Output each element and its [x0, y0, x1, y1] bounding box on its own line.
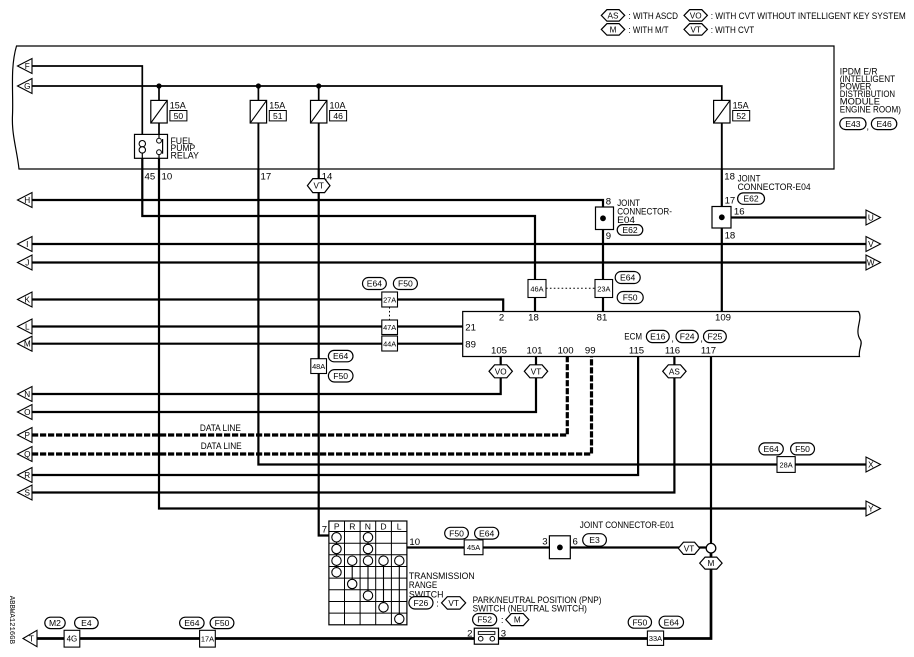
svg-text:E64: E64	[620, 273, 636, 283]
svg-text:S: S	[25, 489, 31, 498]
svg-text:ABBWA1216GB: ABBWA1216GB	[7, 596, 15, 645]
svg-text:V: V	[868, 240, 874, 249]
svg-text:E62: E62	[743, 194, 759, 204]
svg-text:E64: E64	[763, 444, 779, 454]
svg-text:6: 6	[573, 537, 578, 548]
svg-text:F50: F50	[795, 444, 810, 454]
svg-text:52: 52	[736, 111, 746, 121]
svg-text:9: 9	[606, 231, 611, 242]
svg-text:F26: F26	[414, 598, 429, 608]
svg-text:89: 89	[465, 340, 476, 351]
svg-text:E3: E3	[589, 535, 600, 545]
svg-text:3: 3	[542, 537, 547, 548]
svg-text:R: R	[349, 521, 355, 531]
svg-text:10A: 10A	[330, 101, 346, 111]
svg-text:8: 8	[606, 197, 611, 208]
svg-text:N: N	[365, 521, 371, 531]
svg-text:M2: M2	[49, 618, 61, 628]
svg-text:RELAY: RELAY	[171, 151, 200, 161]
svg-text:33A: 33A	[649, 634, 662, 643]
svg-text:15A: 15A	[170, 101, 186, 111]
svg-text:7: 7	[322, 524, 327, 535]
svg-text:116: 116	[665, 346, 680, 357]
svg-text:: WITH CVT WITHOUT INTELLIGENT: : WITH CVT WITHOUT INTELLIGENT KEY SYSTE…	[711, 11, 906, 21]
svg-text:P: P	[334, 521, 340, 531]
svg-text:D: D	[380, 521, 386, 531]
svg-text:117: 117	[701, 346, 716, 357]
svg-text:VO: VO	[690, 11, 702, 20]
svg-text:E64: E64	[479, 528, 495, 538]
svg-text:P: P	[25, 431, 31, 440]
svg-text:115: 115	[629, 346, 644, 357]
svg-text:51: 51	[273, 111, 283, 121]
svg-text:46: 46	[333, 111, 343, 121]
svg-text:17A: 17A	[201, 635, 214, 644]
svg-text:J: J	[25, 259, 29, 268]
svg-text:E64: E64	[184, 618, 200, 628]
svg-text:27A: 27A	[383, 295, 396, 304]
svg-text:E64: E64	[367, 279, 383, 289]
svg-text:VT: VT	[448, 599, 458, 608]
svg-text:50: 50	[174, 111, 184, 121]
svg-text:F24: F24	[680, 332, 695, 342]
svg-text:M: M	[707, 559, 714, 568]
svg-text:4G: 4G	[67, 635, 78, 644]
svg-text:E46: E46	[876, 119, 892, 129]
svg-text:47A: 47A	[383, 323, 396, 332]
svg-text:E16: E16	[650, 332, 666, 342]
svg-text:JOINT CONNECTOR-E01: JOINT CONNECTOR-E01	[580, 520, 674, 530]
svg-text:O: O	[24, 408, 30, 417]
svg-text:I: I	[26, 240, 28, 249]
svg-text:23A: 23A	[597, 284, 610, 293]
svg-text:101: 101	[526, 346, 542, 357]
svg-text:21: 21	[465, 322, 476, 333]
svg-text:VT: VT	[684, 544, 694, 553]
svg-text:H: H	[24, 196, 30, 205]
svg-text:F25: F25	[707, 332, 722, 342]
svg-text:VO: VO	[495, 367, 507, 376]
svg-text:105: 105	[491, 346, 507, 357]
svg-text:VT: VT	[313, 182, 323, 191]
svg-text:,: ,	[671, 334, 674, 344]
svg-text:E64: E64	[333, 351, 349, 361]
svg-text::: :	[501, 615, 504, 626]
svg-text:F50: F50	[333, 371, 348, 381]
svg-text:10: 10	[162, 171, 173, 182]
svg-text:: WITH M/T: : WITH M/T	[629, 25, 669, 35]
svg-text:15A: 15A	[269, 101, 285, 111]
svg-text:99: 99	[585, 346, 596, 357]
svg-text:T: T	[29, 635, 34, 644]
svg-text:SWITCH (NEUTRAL SWITCH): SWITCH (NEUTRAL SWITCH)	[473, 604, 587, 614]
svg-text:Q: Q	[24, 450, 30, 459]
svg-text:2: 2	[467, 628, 472, 639]
svg-text:100: 100	[558, 346, 574, 357]
svg-text:AS: AS	[608, 11, 619, 20]
svg-text:U: U	[868, 214, 874, 223]
svg-text:17: 17	[261, 171, 272, 182]
svg-text:28A: 28A	[780, 460, 793, 469]
svg-text:AS: AS	[669, 367, 680, 376]
svg-text:F: F	[25, 62, 30, 71]
svg-text:W: W	[867, 259, 875, 268]
svg-text:ENGINE ROOM): ENGINE ROOM)	[840, 104, 901, 114]
svg-text:18: 18	[724, 171, 735, 182]
svg-text:F50: F50	[398, 279, 413, 289]
svg-text:16: 16	[734, 207, 745, 218]
svg-text:VT: VT	[690, 25, 700, 34]
svg-text:,: ,	[867, 122, 870, 132]
svg-text:X: X	[868, 461, 874, 470]
svg-text:10: 10	[409, 537, 420, 548]
svg-text:L: L	[25, 323, 30, 332]
svg-text:18: 18	[725, 231, 736, 242]
svg-text:E4: E4	[81, 618, 92, 628]
svg-text:M: M	[514, 616, 521, 625]
svg-text:G: G	[24, 82, 30, 91]
svg-text:M: M	[610, 25, 617, 34]
svg-text:R: R	[24, 471, 30, 480]
svg-text:Y: Y	[868, 505, 874, 514]
svg-text:15A: 15A	[733, 101, 749, 111]
svg-text:3: 3	[501, 628, 506, 639]
svg-text::: :	[436, 598, 439, 609]
svg-text:F50: F50	[623, 293, 638, 303]
svg-text:: WITH ASCD: : WITH ASCD	[629, 11, 679, 21]
svg-text:CONNECTOR-E04: CONNECTOR-E04	[738, 182, 811, 192]
svg-text:48A: 48A	[312, 362, 325, 371]
svg-text:ECM: ECM	[624, 332, 642, 342]
svg-text:109: 109	[715, 312, 731, 323]
svg-text:17: 17	[725, 195, 736, 206]
svg-text:N: N	[24, 390, 30, 399]
svg-text:: WITH CVT: : WITH CVT	[711, 25, 755, 35]
svg-text:2: 2	[499, 312, 504, 323]
svg-text:E04: E04	[617, 215, 635, 225]
svg-text:K: K	[25, 296, 31, 305]
svg-text:45A: 45A	[467, 543, 480, 552]
svg-text:44A: 44A	[383, 339, 396, 348]
svg-text:,: ,	[700, 334, 703, 344]
svg-text:45: 45	[145, 171, 156, 182]
svg-text:DATA LINE: DATA LINE	[200, 423, 241, 433]
svg-text:E62: E62	[622, 225, 638, 235]
svg-text:46A: 46A	[530, 284, 543, 293]
svg-text:F50: F50	[215, 618, 230, 628]
svg-text:81: 81	[597, 312, 608, 323]
svg-text:F50: F50	[449, 528, 464, 538]
svg-text:F50: F50	[632, 617, 647, 627]
svg-text:M: M	[24, 340, 31, 349]
svg-text:F52: F52	[477, 615, 492, 625]
svg-text:L: L	[397, 521, 402, 531]
svg-text:DATA LINE: DATA LINE	[201, 441, 242, 451]
svg-text:18: 18	[528, 312, 539, 323]
svg-text:E64: E64	[664, 617, 680, 627]
svg-text:E43: E43	[845, 119, 861, 129]
svg-text:VT: VT	[531, 367, 541, 376]
